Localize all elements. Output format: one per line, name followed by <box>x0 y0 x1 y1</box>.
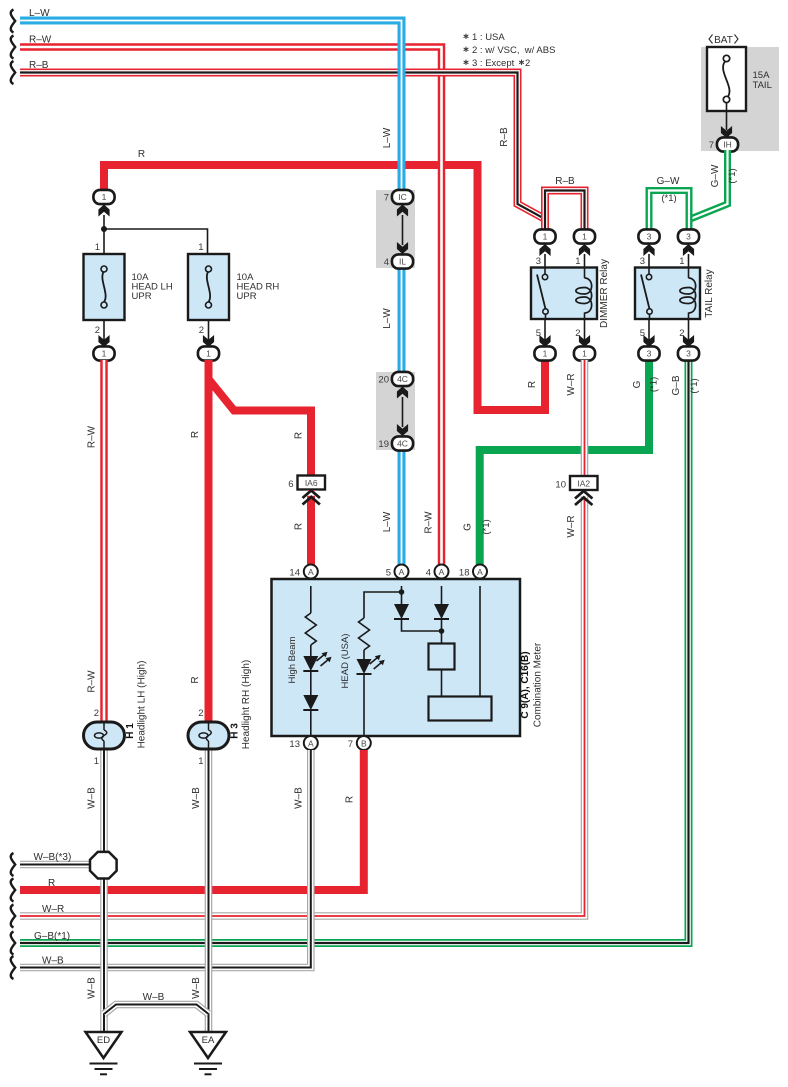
svg-text:G–B: G–B <box>671 375 682 395</box>
svg-text:4C: 4C <box>397 439 408 449</box>
arrow into oval below RH fuse <box>203 335 214 347</box>
svg-text:UPR: UPR <box>132 291 152 302</box>
svg-text:W–B: W–B <box>87 977 98 999</box>
svg-text:W–B: W–B <box>87 787 98 809</box>
svg-text:W–B(*3): W–B(*3) <box>34 852 72 863</box>
wire: R-B branch loop to both dimmer relay pins <box>545 191 585 232</box>
connector oval 1 below dimmer pin 2 <box>574 346 595 360</box>
svg-text:(*1): (*1) <box>727 168 738 183</box>
diode below high beam LED <box>303 695 318 710</box>
brace bottom W-R <box>11 905 15 928</box>
svg-text:W–B: W–B <box>191 787 202 809</box>
meter pin 14 circle <box>289 565 317 579</box>
junction dot pin 5 <box>399 589 405 595</box>
wire: W-B(*3) bus into octagon <box>20 861 95 869</box>
ground ED <box>86 1032 122 1074</box>
connector IH pin 7 <box>709 137 738 151</box>
wire tail pin1 to relay <box>688 254 690 268</box>
svg-text:5: 5 <box>386 568 391 579</box>
svg-text:1: 1 <box>543 232 548 242</box>
svg-text:High Beam: High Beam <box>287 636 298 683</box>
connector oval 1 below RH fuse <box>198 346 219 360</box>
svg-text:ED: ED <box>97 1035 110 1046</box>
svg-text:1: 1 <box>198 756 203 767</box>
arrow into oval tail pin 5 <box>643 335 654 347</box>
big box in meter <box>429 697 492 721</box>
svg-text:R–W: R–W <box>29 35 52 46</box>
wire: thick red R feed from fuse to dimmer relay pin 5 <box>104 165 545 410</box>
svg-text:1: 1 <box>582 349 587 359</box>
wire LED to diode <box>310 671 312 695</box>
svg-text:6: 6 <box>288 479 293 490</box>
connector oval 1 below dimmer pin 5 <box>534 346 555 360</box>
svg-text:2: 2 <box>199 325 204 336</box>
svg-text:(*1): (*1) <box>661 193 676 204</box>
connector oval 3 below tail pin 5 <box>638 346 659 360</box>
brace bottom W-B(*3) <box>11 853 15 876</box>
svg-text:4C: 4C <box>397 374 408 384</box>
svg-text:1: 1 <box>206 349 211 359</box>
svg-text:10: 10 <box>555 480 566 491</box>
wire resistor to LED <box>310 645 312 656</box>
svg-text:Headlight LH (High): Headlight LH (High) <box>137 661 148 749</box>
wire tail pin5 to oval <box>648 319 650 340</box>
svg-text:L–W: L–W <box>29 8 50 19</box>
svg-text:R: R <box>138 149 145 160</box>
wire: R-W bus from left brace down to meter pin 4 <box>20 47 442 565</box>
arrow into oval above LH fuse <box>98 205 109 217</box>
svg-text:1: 1 <box>198 242 203 253</box>
arrow into IH <box>721 126 732 138</box>
meter pin 18 circle <box>459 565 487 579</box>
svg-text:W–B: W–B <box>143 992 165 1003</box>
wire relay pin5 to oval <box>544 319 546 340</box>
svg-text:7: 7 <box>709 140 714 151</box>
resistor head usa <box>359 618 370 650</box>
wire relay pin2 to oval <box>584 319 586 340</box>
fuse 10A HEAD LH UPR <box>84 254 125 320</box>
connector oval 4C pin 20 <box>378 372 413 386</box>
svg-text:R–B: R–B <box>499 127 510 147</box>
svg-text:TAIL: TAIL <box>753 80 772 91</box>
brace bottom R <box>11 879 15 902</box>
svg-text:(*1): (*1) <box>689 378 700 393</box>
arrow into oval dimmer pin 5 <box>539 335 550 347</box>
wire: W-B from meter pin13 to left brace <box>20 750 311 968</box>
note legend <box>464 32 556 69</box>
svg-text:1 : USA: 1 : USA <box>472 32 505 43</box>
svg-text:1: 1 <box>679 256 684 267</box>
wire tail pin3 to relay <box>648 254 650 268</box>
wire tail pin2 to oval <box>688 319 690 340</box>
svg-text:R–B: R–B <box>555 176 575 187</box>
wire: R from meter pin7 to left brace <box>20 750 364 890</box>
wire dot to head branch <box>364 592 402 618</box>
svg-text:DIMMER Relay: DIMMER Relay <box>599 259 610 328</box>
svg-text:R: R <box>190 676 201 683</box>
arrow into IL <box>397 242 408 254</box>
wire: W-B jumper between grounds <box>104 1005 209 1015</box>
TAIL relay box <box>635 268 700 320</box>
wire: R-W from LH fuse to H1 <box>100 360 108 722</box>
ground EA <box>190 1032 226 1074</box>
svg-text:L–W: L–W <box>382 308 393 329</box>
svg-text:2: 2 <box>198 708 203 719</box>
connector IA2 pin 10 <box>555 476 597 505</box>
svg-text:Headlight RH (High): Headlight RH (High) <box>241 660 252 749</box>
svg-text:1: 1 <box>102 192 107 202</box>
arrow into oval tail pin 2 <box>683 335 694 347</box>
wire pin4 to diode D2 <box>441 586 443 604</box>
brace bottom W-B <box>11 956 15 979</box>
svg-text:R: R <box>345 796 356 803</box>
connector oval 1 above dimmer pin 1 <box>574 229 595 243</box>
wire junction to RH fuse <box>104 229 208 254</box>
connector block 4C/4C gray background <box>376 372 415 450</box>
svg-text:18: 18 <box>459 568 470 579</box>
battery fuse block gray background <box>701 47 779 151</box>
brace top R-B <box>11 61 15 84</box>
svg-text:1: 1 <box>543 349 548 359</box>
svg-text:A: A <box>399 567 405 577</box>
svg-text:7: 7 <box>348 739 353 750</box>
arrow out of 4C top <box>397 387 408 399</box>
connector oval 3 below tail pin 2 <box>678 346 699 360</box>
octagon junction <box>90 852 117 879</box>
fuse 10A HEAD RH UPR <box>188 254 229 320</box>
connector block IC/IL gray background <box>376 190 415 268</box>
DIMMER relay box <box>531 268 597 320</box>
wire: R from RH fuse to H3 <box>205 360 213 722</box>
svg-text:Combination Meter: Combination Meter <box>533 642 544 727</box>
svg-text:R–W: R–W <box>87 425 98 448</box>
connector IA6 chevrons <box>304 491 320 496</box>
headlight H3 <box>188 722 229 749</box>
brace top R-W <box>11 36 15 59</box>
arrow into oval dimmer pin 3 <box>539 244 550 256</box>
arrow into oval dimmer pin 2 <box>579 335 590 347</box>
svg-text:R–W: R–W <box>424 511 435 534</box>
LED head usa <box>357 655 385 674</box>
brace bottom G-B <box>11 932 15 955</box>
arrow into oval below LH fuse <box>98 335 109 347</box>
svg-text:A: A <box>477 567 483 577</box>
wire IA6 to meter pin 14 <box>307 490 315 565</box>
svg-text:IL: IL <box>399 257 406 267</box>
meter pin 13 circle <box>289 736 317 750</box>
wire small box to big box <box>441 670 443 697</box>
svg-text:3: 3 <box>686 232 691 242</box>
svg-text:A: A <box>439 567 445 577</box>
svg-text:W–B: W–B <box>294 787 305 809</box>
arrow into 4C bottom <box>397 424 408 436</box>
svg-text:(*1): (*1) <box>649 377 660 392</box>
wire: G-W from IH to tail relay connectors <box>689 150 728 231</box>
svg-text:1: 1 <box>94 756 99 767</box>
wire pin 18 to big box <box>479 586 481 697</box>
svg-text:H 1: H 1 <box>125 723 136 739</box>
svg-text:A: A <box>308 567 314 577</box>
svg-text:R: R <box>527 381 538 388</box>
wire: W-R from dimmer pin2 oval down to left brace <box>20 360 585 916</box>
brace top L-W <box>11 10 15 33</box>
svg-text:IA6: IA6 <box>305 478 318 488</box>
svg-text:IA2: IA2 <box>577 479 590 489</box>
junction dot diodes <box>439 628 445 634</box>
wire: W-B from H1 down to ED ground <box>100 749 108 1032</box>
svg-text:R–B: R–B <box>29 60 49 71</box>
LED high beam <box>303 652 331 671</box>
connector oval IL pin 4 <box>384 254 413 268</box>
svg-text:3 : Except: 3 : Except <box>472 58 515 69</box>
svg-text:4: 4 <box>384 257 389 268</box>
wire resistor to LED head <box>363 650 365 659</box>
svg-text:19: 19 <box>378 439 389 450</box>
svg-text:R: R <box>190 431 201 438</box>
arrow into oval dimmer pin 1 <box>579 244 590 256</box>
connector oval 3 above tail pin 1 <box>678 229 699 243</box>
svg-text:G–W: G–W <box>657 176 680 187</box>
svg-text:EA: EA <box>202 1035 215 1046</box>
svg-text:L–W: L–W <box>382 127 393 148</box>
arrow into IC <box>397 205 408 217</box>
svg-text:B: B <box>361 739 367 749</box>
svg-text:4: 4 <box>426 568 431 579</box>
wire pin3 to relay <box>544 254 546 268</box>
diode D1 <box>394 604 409 619</box>
svg-text:IH: IH <box>723 140 732 150</box>
wire: L-W bus from left brace down to meter pin 5 <box>20 21 402 566</box>
svg-text:G: G <box>463 523 474 531</box>
label 10A HEAD LH UPR <box>132 272 173 302</box>
svg-text:C 9(A), C16(B): C 9(A), C16(B) <box>520 651 531 718</box>
meter pin 4 circle <box>426 565 449 579</box>
svg-text:R: R <box>294 432 305 439</box>
wire diode to pin 13 <box>310 710 312 738</box>
svg-text:R: R <box>48 878 55 889</box>
arrow into oval tail pin 3 <box>643 244 654 256</box>
svg-text:3: 3 <box>647 232 652 242</box>
svg-text:G: G <box>632 380 643 388</box>
svg-text:3: 3 <box>686 349 691 359</box>
wire pin1 to relay <box>584 254 586 268</box>
svg-text:2: 2 <box>525 58 530 69</box>
wires diodes to junction <box>402 619 442 644</box>
svg-text:L–W: L–W <box>382 511 393 532</box>
svg-text:13: 13 <box>289 739 300 750</box>
svg-text:W–R: W–R <box>566 373 577 395</box>
label 10A HEAD RH UPR <box>237 272 280 302</box>
wire from fuse to IH <box>726 103 728 131</box>
wire: G thick from tail relay pin5 oval down-left to meter pin 18 <box>480 360 649 565</box>
svg-text:20: 20 <box>378 375 389 386</box>
svg-text:G–W: G–W <box>710 164 721 187</box>
svg-text:2 : w/ VSC, w/ ABS: 2 : w/ VSC, w/ ABS <box>472 45 555 56</box>
small box in meter <box>429 644 455 670</box>
combination meter box <box>272 579 521 736</box>
connector oval 1 above LH fuse <box>93 190 114 204</box>
svg-text:R–W: R–W <box>87 670 98 693</box>
wire: R-B bus from left brace to dimmer relay connectors <box>20 73 545 232</box>
wire LED head to pin 7 <box>363 674 365 738</box>
connector oval 3 above tail pin 3 <box>638 229 659 243</box>
wire: G-B from tail relay pin2 to left brace <box>20 360 689 943</box>
connector oval 4C pin 19 <box>378 436 413 450</box>
wire RH fuse to oval <box>208 320 210 340</box>
svg-text:R: R <box>294 523 305 530</box>
meter internal: head usa branch <box>401 586 403 592</box>
svg-text:7: 7 <box>384 193 389 204</box>
svg-text:3: 3 <box>640 256 645 267</box>
meter pin 5 circle <box>386 565 409 579</box>
svg-text:1: 1 <box>102 349 107 359</box>
svg-text:HEAD (USA): HEAD (USA) <box>340 634 351 689</box>
wire: R branch from RH fuse to IA6 and meter pin 14 <box>209 379 312 477</box>
svg-text:W–B: W–B <box>42 956 64 967</box>
svg-text:BAT: BAT <box>714 35 733 46</box>
svg-text:A: A <box>308 739 314 749</box>
headlight H1 <box>84 722 125 749</box>
arrow into oval tail pin 1 <box>683 244 694 256</box>
connector oval 1 below LH fuse <box>93 346 114 360</box>
svg-text:TAIL Relay: TAIL Relay <box>704 269 715 317</box>
svg-text:IC: IC <box>398 192 407 202</box>
wire 4C to 4C <box>402 397 404 427</box>
connector IA6 pin 6 <box>288 476 325 491</box>
wire IC to IL <box>402 215 404 245</box>
connector oval IC pin 7 <box>384 190 413 204</box>
svg-text:3: 3 <box>536 256 541 267</box>
svg-text:2: 2 <box>94 708 99 719</box>
diode D2 <box>434 604 449 619</box>
svg-text:14: 14 <box>289 568 300 579</box>
svg-text:1: 1 <box>575 256 580 267</box>
svg-text:1: 1 <box>582 232 587 242</box>
svg-text:1: 1 <box>95 242 100 253</box>
svg-text:W–B: W–B <box>191 977 202 999</box>
svg-text:UPR: UPR <box>237 291 257 302</box>
svg-text:G–B(*1): G–B(*1) <box>34 931 70 942</box>
wire dot to diode D1 <box>401 592 403 604</box>
svg-text:W–R: W–R <box>42 904 64 915</box>
svg-text:W–R: W–R <box>566 515 577 537</box>
connector oval 1 above dimmer pin 3 <box>534 229 555 243</box>
svg-text:3: 3 <box>647 349 652 359</box>
label (BAT) <box>709 35 738 47</box>
wire LH fuse to oval <box>103 320 105 340</box>
svg-text:H 3: H 3 <box>230 723 241 739</box>
meter internal: high beam branch wire <box>310 586 312 613</box>
fuse 15A TAIL <box>707 47 746 111</box>
wire: W-B from H3 down to EA ground <box>205 749 213 1032</box>
svg-text:(*1): (*1) <box>481 519 492 534</box>
junction dot <box>101 226 107 232</box>
svg-text:2: 2 <box>95 325 100 336</box>
wire oval to fuse junction <box>103 215 105 254</box>
wire: G-W branch loop to both tail relay pins <box>649 191 689 232</box>
resistor high beam <box>305 613 316 645</box>
meter pin 7 circle <box>348 736 371 750</box>
